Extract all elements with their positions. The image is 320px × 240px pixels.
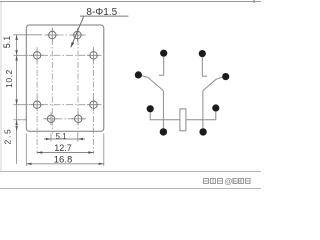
arrow 10.2 bottom (15, 100, 17, 105)
frame bottom separator line (0, 171, 261, 173)
hole B2 bottom-right (75, 115, 82, 122)
dimension line 16.8 (26, 163, 104, 165)
extension line bottom hole row left (14, 119, 28, 121)
centerline horizontal tick bottom hole row (43, 118, 86, 120)
hole O2 outer-right upper (90, 52, 97, 59)
wire coil left (150, 112, 180, 120)
pin dot 1 top-left NC contact (160, 50, 167, 57)
hole T1 top-left (49, 31, 56, 38)
extension line bottom column B2 (77, 134, 79, 142)
svg-text:2.5: 2.5 (2, 128, 12, 145)
relay body outline (footprint rounded rect) (26, 25, 104, 131)
arrow 10.2 top (15, 55, 17, 60)
top-right tick mark (253, 0, 255, 3)
centerline vertical column x=78 (77, 28, 79, 134)
leader arrowhead (71, 42, 75, 47)
contact tick left (159, 74, 164, 76)
hole O4 outer-right lower (90, 101, 97, 108)
arrow 16.8 left (26, 163, 31, 165)
pin dot 3 outer-left common (135, 71, 142, 78)
frame lower separator line (0, 188, 261, 190)
centerline horizontal row y=55.3 (29, 54, 103, 56)
svg-text:12.7: 12.7 (54, 143, 72, 153)
coil rectangle (180, 109, 186, 131)
frame top border (0, 1, 261, 3)
arrow 5.1 bottom (15, 50, 17, 55)
svg-text:5.1: 5.1 (55, 132, 67, 141)
extension line bottom column B1 (50, 134, 52, 142)
wire pin1 down (163, 57, 165, 76)
centerline horizontal tick top hole row (44, 34, 86, 36)
arrow 2.5 top (15, 120, 17, 125)
arrow 5.1 bottom-left (46, 138, 51, 140)
frame left border (0, 2, 2, 171)
centerline horizontal row y=104.7 (29, 104, 103, 106)
watermark (204, 179, 223, 184)
extension line upper outer row left (14, 54, 29, 56)
svg-text:10.2: 10.2 (4, 69, 14, 88)
arrow 5.1 bottom-right (78, 138, 83, 140)
extension line rect left edge (25, 134, 27, 167)
centerline vertical column x=52 (51, 28, 53, 134)
arrow 12.7 right (88, 151, 93, 153)
centerline vertical column x=37 (36, 47, 38, 154)
wire common right vertical (202, 91, 204, 129)
wire common left vertical (162, 91, 164, 129)
wire coil right (186, 111, 216, 119)
leader line to hole T2 (71, 16, 84, 47)
pin dot 7 bottom-left (160, 128, 167, 135)
arrow 2.5 bottom (15, 126, 17, 131)
hole centerline crosses (46, 34, 59, 36)
hole B1 bottom-left (47, 115, 54, 122)
hole O3 outer-left lower (33, 101, 40, 108)
arrow 12.7 left (37, 151, 42, 153)
contact tick right (202, 75, 207, 77)
extension line rect right edge (103, 134, 105, 167)
extension line top hole row left (14, 34, 43, 36)
dimension line 5.1 bottom (44, 138, 85, 140)
pin dot 8 bottom-right (199, 128, 206, 135)
wire pin2 down (201, 57, 203, 76)
centerline vertical column x=93.5 (93, 47, 95, 154)
pin dot 5 coil-left (147, 105, 154, 112)
svg-text:5.1: 5.1 (2, 36, 12, 49)
arrow 16.8 right (99, 163, 104, 165)
svg-text:16.8: 16.8 (54, 155, 73, 166)
pin dot 2 top-right NC contact (199, 50, 206, 57)
arrow 5.1 top (15, 35, 17, 40)
hole O1 outer-left upper (33, 52, 40, 59)
leader underline for label (80, 15, 128, 17)
extension line lower outer row left (14, 104, 29, 106)
pin dot 4 outer-right common (222, 73, 229, 80)
dimension line 12.7 (37, 152, 93, 154)
armature wire right (203, 77, 223, 90)
pin dot 6 coil-right (212, 104, 219, 111)
armature wire left (142, 76, 164, 91)
dimension column vertical line (16, 35, 18, 164)
hole T2 top-right (74, 31, 81, 38)
